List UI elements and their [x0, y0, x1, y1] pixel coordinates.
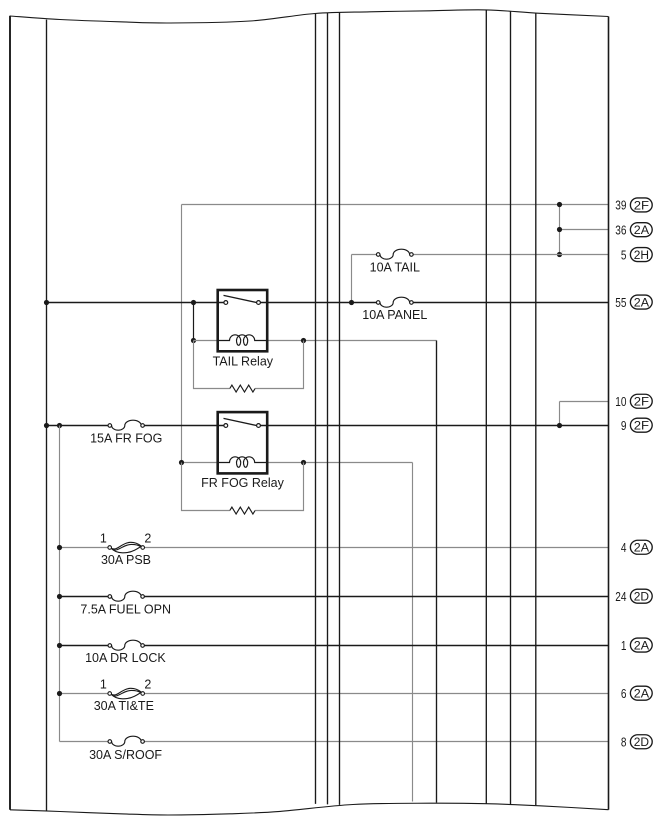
svg-text:1: 1: [100, 532, 107, 546]
pin label 10 2F: [615, 394, 652, 409]
junction dot FR FOG coil left: [179, 460, 184, 465]
fuse 7.5A FUEL OPN: [108, 591, 144, 601]
wire TAIL coil lead right: [267, 340, 436, 342]
wire feeder x=59.5: [59, 426, 61, 742]
pin label 39 2F: [615, 198, 652, 213]
svg-text:2F: 2F: [634, 397, 649, 409]
junction dot bus-frfog: [44, 423, 49, 428]
relay FR FOG switch blade: [224, 418, 258, 425]
svg-text:24: 24: [615, 589, 626, 604]
svg-text:2A: 2A: [634, 225, 650, 237]
pin label 6 2A: [621, 686, 652, 701]
junction dot TI&TE: [57, 691, 62, 696]
svg-text:10A PANEL: 10A PANEL: [362, 308, 427, 322]
pin label 36 2A: [615, 222, 652, 237]
wire main row y=302 segment C: [413, 302, 608, 304]
fuse 30A S/ROOF: [108, 736, 144, 746]
bus bar B1: [46, 20, 48, 812]
svg-text:9: 9: [621, 418, 627, 433]
junction dot PSB: [57, 545, 62, 550]
svg-text:1: 1: [621, 638, 627, 653]
fuse 10A TAIL: [376, 249, 413, 259]
wire PSB row segment A: [60, 547, 108, 549]
pin label 55 2A: [615, 295, 652, 310]
bus bar B7: [535, 13, 537, 805]
svg-text:10A DR LOCK: 10A DR LOCK: [85, 651, 166, 665]
wire FR FOG row segment A: [47, 425, 109, 427]
svg-text:15A FR FOG: 15A FR FOG: [90, 431, 162, 445]
junction dot bus-main: [44, 300, 49, 305]
wire pin-36 row: [560, 229, 609, 231]
resistor FR FOG relay coil suppression: [230, 507, 255, 514]
junction dot 193-coil: [191, 338, 196, 343]
junction dot TAIL coil right: [301, 338, 306, 343]
border bottom torn edge: [10, 803, 609, 815]
wire FUEL OPN row segment A: [60, 596, 109, 598]
wire S/ROOF row segment B: [144, 741, 608, 743]
wire drop x=412.5: [412, 463, 414, 802]
svg-text:2: 2: [144, 677, 151, 691]
wire FR FOG coil lead right: [267, 462, 412, 464]
wire vertical x=559.5 pin tie: [559, 205, 561, 255]
bus bar B4: [339, 12, 341, 805]
wire TI&TE row segment B: [145, 693, 609, 695]
wire FR FOG row segment C: [261, 425, 609, 427]
wire TAIL coil lead left: [194, 340, 218, 342]
pin label 1 2A: [621, 638, 652, 653]
bus bar B3: [327, 13, 329, 805]
junction dot 39: [557, 202, 562, 207]
wire pin-10 drop: [559, 402, 561, 426]
svg-text:FR FOG Relay: FR FOG Relay: [201, 476, 284, 490]
svg-text:2: 2: [144, 532, 151, 546]
pin label 5 2H: [621, 247, 652, 262]
relay TAIL switch contact left: [224, 301, 228, 305]
wire DR LOCK row segment A: [60, 645, 109, 647]
wire TAIL resistor loop: [194, 341, 304, 389]
junction dot 5: [557, 252, 562, 257]
svg-text:2A: 2A: [634, 640, 650, 652]
fuse 10A PANEL: [376, 297, 413, 307]
svg-text:1: 1: [100, 677, 107, 691]
junction dot DR LOCK: [57, 643, 62, 648]
junction dot 36: [557, 227, 562, 232]
relay TAIL switch contact right: [257, 301, 261, 305]
wire PSB row segment B: [145, 547, 609, 549]
relay TAIL box: [218, 290, 268, 351]
wire FR FOG coil lead left: [182, 462, 218, 464]
svg-text:2A: 2A: [634, 297, 650, 309]
svg-text:30A S/ROOF: 30A S/ROOF: [89, 748, 162, 762]
svg-text:2F: 2F: [634, 421, 649, 433]
wire TI&TE row segment A: [60, 693, 108, 695]
fuse 15A FR FOG: [108, 420, 144, 430]
relay TAIL coil: [218, 335, 268, 346]
svg-text:2A: 2A: [634, 543, 650, 555]
svg-text:30A TI&TE: 30A TI&TE: [94, 699, 154, 713]
junction dot pin-10: [557, 423, 562, 428]
svg-text:2D: 2D: [634, 592, 649, 604]
wire FR FOG resistor loop: [182, 463, 304, 511]
wire vertical x=351.5 branch: [351, 255, 353, 303]
relay FR FOG switch contact left: [224, 424, 228, 428]
wire vertical x=181 coil feed: [181, 205, 183, 463]
wire S/ROOF row corner: [60, 741, 109, 743]
border top torn edge: [10, 10, 609, 23]
fuse 10A DR LOCK: [108, 640, 144, 650]
bus bar B2: [315, 14, 317, 804]
wire vertical 193 to coil: [193, 303, 195, 341]
wire DR LOCK row segment B: [144, 645, 608, 647]
wire pin-10 row: [560, 401, 609, 403]
junction dot FUEL OPN: [57, 594, 62, 599]
svg-text:4: 4: [621, 540, 627, 555]
svg-text:TAIL Relay: TAIL Relay: [213, 355, 274, 369]
pin label 24 2D: [615, 589, 652, 604]
fuse 30A PSB (slow blow): [108, 542, 145, 553]
svg-text:2A: 2A: [634, 689, 650, 701]
relay FR FOG box: [218, 412, 268, 473]
wire pin-5 row right segment: [413, 254, 608, 256]
wire drop x=436.5: [436, 341, 438, 803]
junction dot FR FOG coil right: [301, 460, 306, 465]
svg-text:55: 55: [615, 295, 626, 310]
bus bar B6: [510, 11, 512, 804]
relay FR FOG coil: [218, 457, 268, 468]
relay FR FOG switch contact right: [257, 424, 261, 428]
svg-text:10A TAIL: 10A TAIL: [370, 260, 420, 274]
wire FR FOG row segment B: [144, 425, 224, 427]
svg-text:2F: 2F: [634, 200, 649, 212]
junction dot feeder-frfog: [57, 423, 62, 428]
svg-text:10: 10: [615, 394, 626, 409]
svg-text:7.5A FUEL OPN: 7.5A FUEL OPN: [80, 602, 171, 616]
svg-text:30A PSB: 30A PSB: [101, 553, 151, 567]
wire pin-5 row left segment: [352, 254, 377, 256]
wire main row y=302 segment B: [260, 302, 376, 304]
junction dot 193-main: [191, 300, 196, 305]
wire node-205 row (pin 39 feed): [182, 204, 609, 206]
pin label 9 2F: [621, 418, 652, 433]
svg-text:36: 36: [615, 222, 626, 237]
svg-text:6: 6: [621, 686, 627, 701]
border right edge: [608, 17, 610, 810]
relay TAIL switch blade: [224, 295, 258, 302]
svg-text:39: 39: [615, 198, 626, 213]
resistor TAIL relay coil suppression: [230, 385, 255, 392]
svg-text:2D: 2D: [634, 737, 649, 749]
pin label 8 2D: [621, 735, 652, 750]
junction dot 351-main: [349, 300, 354, 305]
fuse 30A TI&TE (slow blow): [108, 688, 145, 699]
bus bar B5: [485, 10, 487, 804]
pin label 4 2A: [621, 540, 652, 555]
wire FUEL OPN row segment B: [144, 596, 608, 598]
wire main row y=302 segment A: [47, 302, 225, 304]
svg-text:5: 5: [621, 247, 627, 262]
border left edge: [9, 16, 11, 810]
svg-text:8: 8: [621, 735, 627, 750]
svg-text:2H: 2H: [634, 250, 649, 262]
